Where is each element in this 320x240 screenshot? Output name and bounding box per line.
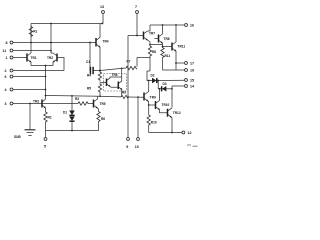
pin 11 xyxy=(3,49,52,53)
svg-text:R5: R5 xyxy=(87,87,91,91)
wire TR7 base line xyxy=(128,35,144,37)
svg-text:TR8: TR8 xyxy=(164,37,170,41)
pin 16 xyxy=(185,24,194,28)
wire R8 to D2 xyxy=(147,71,152,81)
wire D3 right to TR12 collector / pin 14 xyxy=(171,86,184,108)
transistor TR3 xyxy=(33,99,46,112)
transistor TR7 xyxy=(144,25,156,45)
svg-text:7: 7 xyxy=(135,5,137,9)
svg-text:R7: R7 xyxy=(127,60,131,64)
pin 2 xyxy=(5,69,65,73)
transistor TR11 xyxy=(163,25,186,70)
wire bottom right to pin 12 xyxy=(149,132,182,134)
pin 1 xyxy=(6,56,28,60)
pin 10 bottom xyxy=(135,97,140,149)
transistor TR12 xyxy=(168,108,181,133)
resistor R7 xyxy=(126,58,150,70)
wire TR7/TR8 emitter tie xyxy=(150,44,163,46)
pin 5 bottom xyxy=(44,131,47,149)
svg-text:2: 2 xyxy=(5,69,7,73)
wire pin9 long vertical xyxy=(127,36,129,138)
capacitor C1 xyxy=(86,43,100,75)
svg-text:R3: R3 xyxy=(75,97,79,101)
pin 19 xyxy=(163,69,195,73)
transistor TR5 xyxy=(94,96,106,111)
svg-text:19: 19 xyxy=(190,69,194,73)
svg-text:D3: D3 xyxy=(163,82,167,86)
svg-text:14: 14 xyxy=(190,85,194,89)
svg-text:TR3: TR3 xyxy=(33,100,39,104)
pin 12 xyxy=(182,131,192,135)
svg-text:TR7: TR7 xyxy=(149,32,155,36)
wire long mid line to R7 xyxy=(100,68,126,71)
svg-text:1: 1 xyxy=(6,56,8,60)
wire TR6 base stub xyxy=(100,82,107,84)
wire mid line to R9 xyxy=(100,95,121,98)
transistor TR10 xyxy=(148,89,170,113)
transistor TR4 xyxy=(96,24,109,71)
pin 9 bottom xyxy=(126,138,129,149)
svg-text:C1: C1 xyxy=(86,60,90,64)
pin 8 xyxy=(6,41,97,45)
wire tail vertical xyxy=(45,66,47,100)
svg-text:TR5: TR5 xyxy=(100,102,106,106)
svg-text:D1: D1 xyxy=(63,111,67,115)
transistor TR8 xyxy=(155,25,170,45)
svg-text:9: 9 xyxy=(126,145,128,149)
pin 4 xyxy=(5,88,46,92)
diode D1 (dual) xyxy=(63,96,75,131)
svg-text:17: 17 xyxy=(190,62,194,66)
svg-text:TR12: TR12 xyxy=(173,111,181,115)
svg-text:11: 11 xyxy=(3,49,7,53)
svg-text:TR2: TR2 xyxy=(47,56,53,60)
svg-text:D2: D2 xyxy=(151,74,155,78)
junction TR9 collector on D2 line xyxy=(148,80,150,82)
svg-text:16: 16 xyxy=(190,24,194,28)
diode D3 xyxy=(162,82,172,92)
junction TR4 emitter node xyxy=(99,70,101,72)
pin 13 xyxy=(100,5,104,24)
node right top rail xyxy=(150,24,184,26)
transistor TR6 (in box) xyxy=(107,73,122,87)
resistor R8 xyxy=(148,45,156,72)
pin 7 xyxy=(135,5,138,36)
svg-text:TR11: TR11 xyxy=(178,45,186,49)
pin 15 xyxy=(185,79,194,83)
svg-text:10: 10 xyxy=(135,145,139,149)
svg-text:3: 3 xyxy=(5,102,7,106)
resistor R6 xyxy=(97,112,106,122)
svg-text:8: 8 xyxy=(6,41,8,45)
svg-text:4: 4 xyxy=(5,88,7,92)
svg-text:TR4: TR4 xyxy=(103,40,109,44)
svg-text:R9: R9 xyxy=(122,91,126,95)
svg-text:TR9: TR9 xyxy=(150,96,156,100)
resistor R11 xyxy=(161,45,171,71)
svg-text:5: 5 xyxy=(44,145,46,149)
resistor R2 xyxy=(44,112,52,131)
svg-text:6: 6 xyxy=(5,75,7,79)
node top rail (pin13 / R1 / TR4 collector) xyxy=(31,23,103,25)
svg-text:13: 13 xyxy=(100,5,104,9)
pin 3 xyxy=(5,102,79,106)
wire emitter rail diff pair xyxy=(31,65,53,67)
svg-text:R2: R2 xyxy=(48,116,52,120)
svg-text:R1: R1 xyxy=(33,30,37,34)
resistor R9 xyxy=(121,91,128,99)
svg-text:TR10: TR10 xyxy=(162,103,170,107)
svg-text:12: 12 xyxy=(188,131,192,135)
junction C1 riser on pin8 line xyxy=(89,42,91,44)
ground SUB xyxy=(14,104,36,140)
svg-text:R8: R8 xyxy=(152,50,156,54)
junction R1/pin8 xyxy=(30,42,32,44)
pin 14 xyxy=(185,85,194,89)
pin 17 xyxy=(175,62,194,66)
svg-text:R11: R11 xyxy=(165,54,171,58)
wire D2 to D3 drop xyxy=(157,80,161,89)
dashed thermal box xyxy=(104,74,127,92)
resistor R1 xyxy=(29,24,37,43)
svg-text:R6: R6 xyxy=(101,117,105,121)
wire mid node horizontal xyxy=(46,95,102,98)
svg-text:15: 15 xyxy=(190,79,194,83)
pin 6 xyxy=(5,75,46,79)
transistor TR2 xyxy=(47,53,57,66)
svg-text:TR6: TR6 xyxy=(112,73,118,77)
resistor R4 xyxy=(87,71,102,82)
wire R9 to TR9 base xyxy=(128,96,144,98)
transistor TR9 xyxy=(144,81,156,116)
resistor R5 xyxy=(87,83,102,96)
junction dot pin13 rail xyxy=(101,23,103,25)
diode D2 xyxy=(151,74,185,84)
svg-text:R10: R10 xyxy=(151,121,157,125)
transistor TR1 xyxy=(27,43,37,66)
transistor TR8a (in box) xyxy=(118,68,122,97)
resistor R10 xyxy=(147,115,157,133)
wire TR2 base loop to pin 2 xyxy=(57,58,64,71)
svg-text:SUB: SUB xyxy=(14,135,21,139)
corner marks xyxy=(187,145,198,146)
svg-text:R4: R4 xyxy=(87,74,91,78)
wire bottom rail left xyxy=(46,121,99,131)
resistor R3 xyxy=(75,97,94,105)
svg-text:TR1: TR1 xyxy=(31,56,37,60)
wire rail to TR2 collector xyxy=(51,24,53,54)
